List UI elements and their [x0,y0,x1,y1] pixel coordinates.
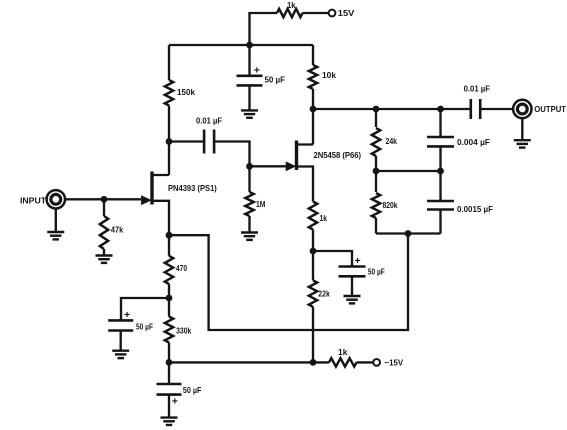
svg-text:1M: 1M [256,199,266,209]
svg-text:330k: 330k [176,326,191,336]
svg-text:1k: 1k [287,0,296,10]
svg-text:INPUT: INPUT [20,196,47,206]
svg-text:+: + [172,396,178,408]
svg-text:10k: 10k [322,70,336,80]
svg-text:0.01 µF: 0.01 µF [196,115,222,125]
svg-text:47k: 47k [111,224,124,234]
svg-text:0.01 µF: 0.01 µF [464,84,490,94]
svg-text:50 µF: 50 µF [183,385,202,395]
svg-text:OUTPUT: OUTPUT [534,104,566,114]
svg-text:50 µF: 50 µF [368,266,385,276]
svg-text:22k: 22k [318,288,330,298]
svg-text:PN4393 (PS1): PN4393 (PS1) [168,183,217,193]
svg-text:+: + [124,309,130,321]
svg-text:50 µF: 50 µF [265,75,286,85]
svg-text:15V: 15V [338,8,355,18]
svg-text:24k: 24k [386,136,398,146]
svg-text:1k: 1k [320,213,328,223]
svg-text:+: + [355,255,361,267]
svg-text:+: + [254,65,260,77]
svg-text:820k: 820k [383,200,398,210]
svg-text:470: 470 [176,263,187,273]
svg-text:1k: 1k [338,347,348,357]
svg-text:0.004 µF: 0.004 µF [457,137,490,147]
svg-text:0.0015 µF: 0.0015 µF [457,204,493,214]
svg-text:50 µF: 50 µF [136,322,153,332]
svg-text:2N5458 (P66): 2N5458 (P66) [314,150,362,160]
svg-text:150k: 150k [177,87,195,97]
svg-text:−15V: −15V [385,357,404,367]
